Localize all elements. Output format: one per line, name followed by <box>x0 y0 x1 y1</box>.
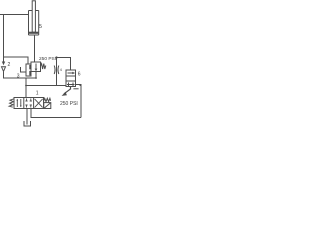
relief valve V6 bottom marks <box>67 83 75 87</box>
tank symbol <box>24 121 31 126</box>
sequence valve V3 arrow <box>35 64 37 70</box>
svg-text:3: 3 <box>17 74 20 80</box>
node mid-rail junction <box>25 85 27 87</box>
relief valve V6 drain arrow <box>64 87 71 94</box>
wire tank drop <box>26 109 28 125</box>
directional valve DV1 body <box>14 98 44 109</box>
svg-text:1: 1 <box>36 90 39 96</box>
wire valve outlet <box>35 72 37 79</box>
DV1 left spring <box>9 99 14 107</box>
cylinder U5 body <box>29 11 39 36</box>
node outlet junction <box>35 77 37 79</box>
DV1 right spring <box>44 98 51 101</box>
wire mid rail <box>26 85 66 87</box>
cylinder U5 rod <box>32 1 35 32</box>
wire rod-end pipe <box>0 14 29 16</box>
svg-text:5: 5 <box>39 24 42 30</box>
DV1 left box arrows <box>16 99 18 107</box>
DV1 right box crossed arrows <box>35 99 43 108</box>
sequence valve V3 spring <box>41 64 46 69</box>
wire cylinder cap line <box>34 35 36 62</box>
check valve C2 seat <box>2 67 6 72</box>
DV1 centre box blocked ports <box>25 99 32 102</box>
orifice R4 line <box>56 58 58 86</box>
wire left rail <box>3 15 5 62</box>
svg-text:2: 2 <box>8 62 11 68</box>
node orifice top junction <box>55 56 57 58</box>
DV1 solenoid <box>44 103 51 109</box>
wire below check valve <box>4 72 37 78</box>
wire relief right port <box>76 85 82 118</box>
wire valve A drop <box>25 78 27 98</box>
relief valve V6 arrow <box>68 72 73 74</box>
svg-text:6: 6 <box>78 72 81 78</box>
wire pilot branch <box>4 57 29 64</box>
wire relief pilot stub <box>73 88 78 90</box>
check valve C2 arrow <box>2 62 5 66</box>
sequence valve V3 body <box>31 62 41 72</box>
wire relief top <box>57 58 71 71</box>
orifice R4 arcs <box>54 66 59 75</box>
svg-text:250 PSI: 250 PSI <box>39 56 56 62</box>
node relief right junction <box>79 84 81 86</box>
svg-text:4: 4 <box>60 68 62 72</box>
sequence valve V3 pilot box <box>26 64 31 76</box>
cylinder U5 piston <box>29 32 38 34</box>
relief valve V6 body <box>66 70 76 87</box>
svg-text:250 PSI: 250 PSI <box>60 101 78 107</box>
sequence valve V3 pilot piston marks <box>29 65 31 69</box>
wire bottom pressure rail <box>31 109 81 118</box>
sequence valve V3 drain step <box>21 67 27 72</box>
